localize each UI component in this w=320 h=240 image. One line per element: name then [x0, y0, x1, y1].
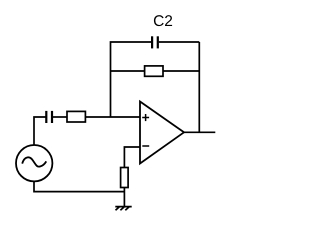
- wire right feedback vertical: [198, 42, 200, 132]
- resistor R ground (vertical): [121, 168, 129, 188]
- resistor R feedback: [145, 66, 163, 76]
- op-amp minus pin mark: [142, 145, 149, 147]
- wire resistor bottom to ground: [123, 188, 125, 207]
- wire source top to input: [34, 117, 46, 146]
- ground: [115, 207, 131, 211]
- wire resistor to op-amp: [85, 116, 139, 118]
- capacitor C1: [46, 111, 52, 123]
- wire feedback resistor branch right: [163, 70, 199, 72]
- op-amp plus pin mark: [142, 114, 149, 121]
- wire top feedback left segment: [111, 42, 152, 117]
- wire source bottom: [34, 181, 124, 192]
- capacitor C2: [152, 36, 158, 48]
- source V1 circle: [16, 145, 52, 181]
- wire inverting input to resistor top: [124, 147, 139, 168]
- wire output: [184, 131, 216, 133]
- wire capacitor to resistor: [53, 116, 67, 118]
- wire feedback resistor branch left: [111, 70, 146, 72]
- op-amp U1: [140, 102, 184, 164]
- source sine symbol: [22, 157, 46, 166]
- wire top feedback right segment: [159, 41, 200, 43]
- resistor R input: [67, 111, 85, 122]
- svg-text:C2: C2: [153, 13, 173, 30]
